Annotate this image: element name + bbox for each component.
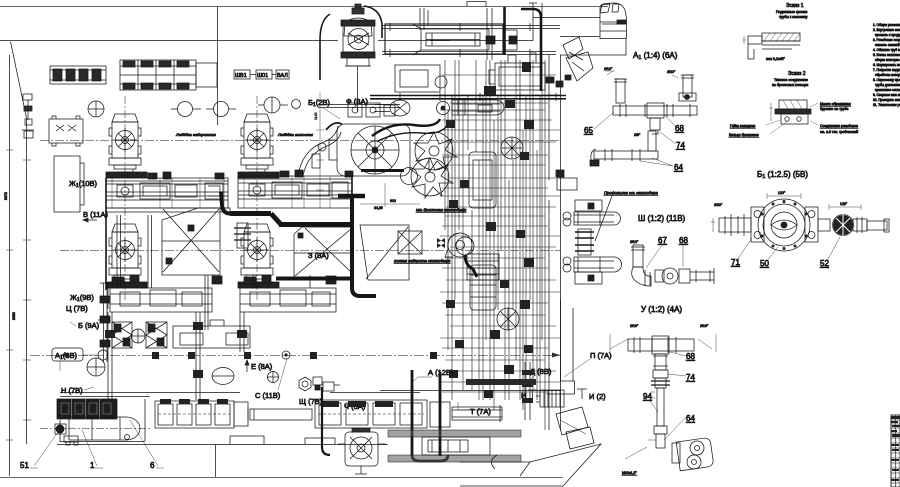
svg-text:8650: 8650 [12, 312, 16, 320]
svg-text:Эскиз 2: Эскиз 2 [788, 71, 806, 77]
detail Б1 assembly [711, 191, 889, 251]
pedestal steps bottom center [216, 436, 388, 445]
bearing stack [467, 254, 499, 280]
svg-text:50: 50 [760, 259, 769, 268]
box after conveyor1 [234, 402, 248, 426]
detail У horizontal pipe [610, 324, 716, 354]
vertical pipes between gearbox rows [117, 215, 310, 330]
svg-text:94: 94 [643, 392, 652, 401]
svg-text:7. Покрытие наружных: 7. Покрытие наружных [873, 68, 900, 72]
detail A1 label 64 [640, 158, 683, 172]
svg-text:∅20°: ∅20° [714, 203, 723, 207]
centerline arrowheads [60, 353, 560, 358]
svg-text:Кольцо бронзовое: Кольцо бронзовое [729, 133, 759, 137]
svg-text:Подвижные кромки: Подвижные кромки [776, 10, 807, 14]
impeller small lower [497, 308, 519, 330]
piping column horizontals [440, 75, 560, 392]
tilted loose boxes [556, 407, 594, 449]
svg-text:Ц (7В): Ц (7В) [66, 304, 88, 313]
svg-text:временное согласно: временное согласно [875, 88, 900, 92]
trapezoid tank top right [489, 53, 545, 90]
svg-text:В (11А): В (11А) [83, 210, 108, 219]
label box ШВ1-Ш01-ВАЛ [234, 70, 289, 79]
dark fitting cluster above row2 right [244, 275, 336, 284]
svg-text:бурение на трубе: бурение на трубе [820, 107, 848, 111]
gearbox row2 left [110, 288, 212, 312]
svg-text:64: 64 [674, 163, 683, 172]
svg-text:120°: 120° [778, 191, 786, 195]
svg-text:65: 65 [584, 126, 593, 135]
svg-text:Б (9А): Б (9А) [78, 321, 100, 330]
svg-text:∅16°: ∅16° [700, 324, 709, 328]
tank1 in piping column [469, 152, 496, 208]
rod 1 [248, 407, 312, 422]
svg-text:Ш01: Ш01 [257, 73, 268, 79]
detail У bottom valve [672, 437, 714, 470]
thick pipe band bottom P2 [276, 277, 352, 281]
thick pipe band1 [230, 211, 271, 216]
vertical pipe with flanges lower right [522, 362, 533, 420]
svg-text:З (8А): З (8А) [308, 251, 329, 260]
main dashed centerline y355 [30, 355, 560, 357]
gearbox row2 right [240, 288, 336, 312]
vertical pipes left-center bottom [108, 312, 244, 400]
small ladder block И filter [536, 390, 564, 407]
svg-text:Типовое соединение: Типовое соединение [774, 78, 808, 82]
detail A1 horizontal pipe [613, 103, 697, 134]
svg-text:П (7А): П (7А) [590, 351, 612, 360]
label И(2) right [577, 389, 606, 401]
Эскиз 2 left labels [729, 120, 788, 137]
svg-text:Н (7В): Н (7В) [61, 386, 83, 395]
coupling between protrusions [575, 229, 594, 255]
left edge fittings [22, 94, 34, 138]
svg-text:4. Обжатие труб вести: 4. Обжатие труб вести [873, 48, 900, 52]
pump P1 top center [320, 4, 382, 112]
svg-text:68: 68 [686, 352, 695, 361]
ladder block A [50, 66, 106, 84]
volute pump [445, 233, 472, 257]
protrusion bracket upper [563, 200, 621, 226]
small circle fitting [437, 102, 450, 115]
lollipop circles row [88, 97, 301, 117]
long hydraulic cylinder frame [385, 24, 517, 55]
title table strip bottom right [891, 415, 900, 487]
detail Ш drawing [630, 240, 714, 286]
svg-text:6. Маркировать по: 6. Маркировать по [873, 63, 900, 67]
conveyor block 2 [315, 400, 427, 428]
label Т(7А) [458, 402, 491, 416]
connecting pipes motor2 to fan [298, 123, 342, 176]
conveyor block 1 [155, 399, 234, 428]
detail Ш labels 67 68 [646, 236, 688, 268]
dimension column left of fan [314, 92, 324, 208]
tank2 in piping column [470, 265, 496, 310]
pipe elbow to valve [322, 387, 330, 455]
Эскиз 1 title [776, 3, 808, 19]
svg-text:мох 0,2х45°: мох 0,2х45° [766, 57, 786, 61]
small circle with ticks [267, 371, 279, 383]
svg-text:9. Сварные швы по: 9. Сварные швы по [873, 93, 900, 97]
thick pipe main vertical [352, 196, 376, 296]
second border line [0, 40, 450, 42]
sheet bottom line [0, 477, 563, 479]
Эскиз 2 title [772, 71, 809, 87]
braced panel P3 [360, 225, 409, 280]
left riser pipe with fittings [100, 283, 110, 362]
collar under M3 [238, 172, 279, 178]
pan ellipse [212, 368, 234, 385]
valve circle with spokes [501, 137, 523, 159]
svg-text:Е (8А): Е (8А) [251, 362, 273, 371]
svg-text:3. Резьбовые соединения: 3. Резьбовые соединения [873, 38, 900, 42]
svg-text:ВАЛ: ВАЛ [277, 73, 288, 79]
motor unit M2 [109, 224, 141, 282]
valve manifold block 1 [112, 322, 132, 348]
top right hood [600, 3, 627, 39]
Эскиз 1 drawing [742, 33, 800, 61]
border divider vertical [217, 7, 219, 126]
valve assembly bottom center [338, 428, 386, 474]
svg-text:ШВ1: ШВ1 [235, 73, 247, 79]
torn flap wedge upper right [563, 37, 593, 81]
deck boundary lines above bottom strip [60, 391, 560, 397]
svg-text:Гайка накидная: Гайка накидная [730, 124, 755, 128]
tall open rect zone [54, 156, 84, 212]
svg-text:1: 1 [90, 461, 95, 470]
dark fitting cluster above row2 left [112, 275, 222, 284]
svg-text:1. Общие указания по: 1. Общие указания по [873, 23, 900, 27]
bench conveyor mid-left [173, 320, 250, 348]
svg-text:М30х1,5°: М30х1,5° [622, 471, 637, 475]
svg-text:сборке повторно: сборке повторно [875, 58, 900, 62]
svg-text:У (1:2) (4А): У (1:2) (4А) [641, 305, 682, 314]
boxed label А1(3В) [52, 348, 97, 371]
svg-text:Масло образивная: Масло образивная [820, 102, 851, 106]
Эскиз 2 right labels [810, 102, 858, 134]
svg-text:51: 51 [20, 461, 29, 470]
bracket polyline near labels [98, 283, 108, 320]
svg-text:∅16°: ∅16° [630, 324, 639, 328]
small valve parts right of hex [313, 377, 340, 391]
main outline left slant [11, 42, 27, 445]
svg-text:Ш (1:2) (11В): Ш (1:2) (11В) [638, 214, 686, 223]
detail Б1 labels 71 50 52 [731, 237, 840, 268]
svg-text:Профильная ось эксплодера: Профильная ось эксплодера [604, 190, 659, 195]
dashed centerline horizontal y250 [60, 250, 560, 252]
dark band right of valve manifold [106, 176, 352, 290]
svg-text:5. Болты затягивать: 5. Болты затягивать [873, 53, 900, 57]
svg-text:трубы давлением: трубы давлением [875, 83, 900, 87]
thick pipe step [271, 214, 281, 225]
svg-text:Д (8В): Д (8В) [530, 367, 552, 376]
svg-text:трубы к маховику: трубы к маховику [779, 15, 808, 19]
svg-text:10. Проверить качество: 10. Проверить качество [873, 98, 900, 102]
svg-text:С (11В): С (11В) [255, 391, 281, 400]
bellows column between panels [234, 223, 251, 248]
svg-text:6: 6 [150, 461, 155, 470]
ring with elbow [456, 237, 477, 277]
braced panel P2 [294, 227, 352, 279]
gearbox row1 right [238, 170, 353, 208]
top border line [0, 6, 608, 8]
circle node left [87, 358, 105, 376]
svg-text:полная габарита эксплодація: полная габарита эксплодація [394, 258, 451, 263]
motor unit M4 [241, 224, 273, 282]
node circle near А1 [98, 350, 108, 360]
frame around tank [60, 399, 145, 442]
thick pipe T2 [521, 9, 541, 91]
svg-text:1140: 1140 [314, 112, 318, 120]
label И small left [521, 390, 537, 400]
battery block 4 dark cells [57, 399, 117, 419]
top border notch [467, 2, 486, 7]
detail A1 vertical pipe 2 [667, 70, 696, 101]
svg-text:52: 52 [820, 259, 829, 268]
Эскиз 2 drawing [769, 100, 811, 124]
label Е(8А) with arrow [245, 360, 273, 372]
piping valve blobs [446, 62, 534, 398]
deck dark band [466, 379, 536, 385]
leader labels 51 1 6 [20, 420, 164, 470]
svg-text:900: 900 [390, 199, 396, 203]
svg-text:Т (7А): Т (7А) [470, 407, 491, 416]
detail A1 labels 65 68 [584, 112, 685, 150]
label В(11А) [83, 210, 108, 222]
collar under M2 [106, 282, 147, 288]
label А(12В) [412, 368, 454, 382]
machine bottom edge [57, 445, 216, 478]
svg-text:∅10°: ∅10° [630, 240, 639, 244]
svg-text:И (2): И (2) [589, 392, 606, 401]
top rails from pump [382, 23, 600, 57]
svg-text:Лебёдка выносная: Лебёдка выносная [277, 132, 314, 137]
detail У labels [622, 352, 695, 475]
piping column verticals [445, 60, 545, 430]
svg-text:Лебёдка габаритная: Лебёдка габаритная [175, 132, 217, 137]
thick pipe S-bend start [221, 192, 230, 214]
gearbox row1 left [106, 172, 230, 212]
svg-text:Ф (8А): Ф (8А) [346, 97, 368, 106]
svg-text:Ж1(10В): Ж1(10В) [69, 179, 98, 189]
anchor marker [437, 238, 445, 248]
svg-text:11. Технические условия: 11. Технические условия [873, 103, 900, 107]
svg-text:74: 74 [676, 141, 685, 150]
dashed axis bottom tank [40, 428, 150, 430]
hex bolt symbol [299, 377, 311, 391]
svg-text:128°: 128° [840, 202, 848, 206]
tech requirements list [873, 23, 900, 107]
svg-text:Ж1(9В): Ж1(9В) [70, 293, 94, 303]
thick S pipes into fan area [372, 119, 440, 136]
rail pair fan top [318, 105, 400, 108]
label П(7А) [564, 351, 612, 377]
manifold boxes above fan housing [348, 103, 395, 117]
svg-text:∅20°: ∅20° [667, 70, 676, 74]
ring node [282, 351, 290, 359]
svg-text:обработка поверхн: обработка поверхн [875, 73, 900, 77]
svg-text:64: 64 [686, 414, 695, 423]
horizontal tank with round cap [64, 417, 140, 445]
central fan housing [329, 124, 418, 185]
valve circle between [131, 329, 145, 343]
motor unit M3 [241, 114, 273, 172]
left small fitting bottom [55, 424, 66, 434]
vertical pipe stubs top border [420, 8, 492, 60]
svg-text:24,25: 24,25 [374, 206, 383, 210]
thick pipe T1 [503, 7, 506, 55]
svg-text:см. п.8 тех. требований: см. п.8 тех. требований [820, 130, 858, 134]
detail A1 vertical pipe 1 [604, 67, 627, 103]
svg-text:68: 68 [675, 124, 684, 133]
rod 2 [452, 405, 502, 422]
thick pipe fan bottom bar [361, 169, 404, 172]
frame between rails [422, 437, 490, 455]
thick pipe band3 [338, 194, 365, 199]
outline tick marks [6, 150, 31, 440]
detail A1 lower elbow pipe [590, 131, 658, 166]
centerline node bolts [152, 352, 437, 359]
svg-text:2. Внутренние полости: 2. Внутренние полости [873, 28, 900, 32]
machine right-bottom outline step [547, 300, 575, 394]
svg-text:на бронзовых кольцах: на бронзовых кольцах [772, 83, 809, 87]
svg-text:9078: 9078 [4, 192, 8, 200]
central impeller upper [414, 132, 457, 172]
svg-text:71: 71 [731, 258, 740, 267]
thick pipe band2 [279, 222, 352, 227]
svg-text:68: 68 [679, 236, 688, 245]
label Н(7В) [61, 386, 94, 395]
svg-text:8. Опрессовку провести: 8. Опрессовку провести [873, 78, 900, 82]
thick pipe lower center [412, 370, 440, 456]
protrusion bracket lower [563, 257, 622, 284]
svg-text:Б1 (1:2.5) (5В): Б1 (1:2.5) (5В) [757, 170, 808, 180]
bullet cylinder [452, 100, 504, 115]
svg-text:∅8°: ∅8° [634, 133, 641, 137]
svg-text:Б1(2В): Б1(2В) [308, 98, 330, 108]
box with X marker center [398, 231, 422, 254]
bottom-right hull tail [460, 444, 601, 486]
svg-text:промыть и продуть: промыть и продуть [875, 33, 900, 37]
top right outline step [430, 3, 626, 430]
hatched rail upper [388, 430, 521, 462]
dashed centerline horizontal y140 [40, 140, 560, 142]
label С(11В) [255, 359, 287, 400]
svg-text:изъ бронзовая эксплодація: изъ бронзовая эксплодація [416, 207, 467, 212]
left dimension line [9, 55, 11, 476]
left column label Б(9А) [70, 321, 100, 330]
label Прокладочные из эксплодера [595, 190, 659, 241]
svg-text:смазать смазкой: смазать смазкой [875, 43, 900, 47]
pump ellipse below box [374, 100, 410, 116]
box after conveyor2 [430, 402, 450, 427]
elbow fittings on pipes [105, 322, 247, 378]
svg-text:Соединение резьбовое: Соединение резьбовое [820, 124, 858, 128]
svg-text:∅10°: ∅10° [604, 67, 613, 71]
svg-text:74: 74 [686, 373, 695, 382]
collar under M1 [106, 172, 147, 178]
svg-text:Эскиз 1: Эскиз 1 [786, 3, 804, 9]
dashed centerlines vertical through motors [125, 96, 257, 300]
valve manifold block 2 [146, 322, 167, 348]
svg-text:67: 67 [658, 236, 667, 245]
motor unit M1 [109, 114, 141, 172]
detail У vertical pipe [625, 354, 670, 459]
label Д(8В) [526, 367, 552, 384]
radiator block B [120, 60, 217, 90]
collar under M4 [238, 282, 279, 288]
svg-text:А1(3В): А1(3В) [55, 351, 77, 361]
box with X brace top-left [49, 116, 83, 146]
braced panel P1 [162, 208, 220, 275]
rail pair upper center [370, 93, 566, 101]
right edge bolts [546, 75, 577, 190]
central impeller lower [410, 158, 453, 198]
sub box below rails [395, 65, 447, 92]
